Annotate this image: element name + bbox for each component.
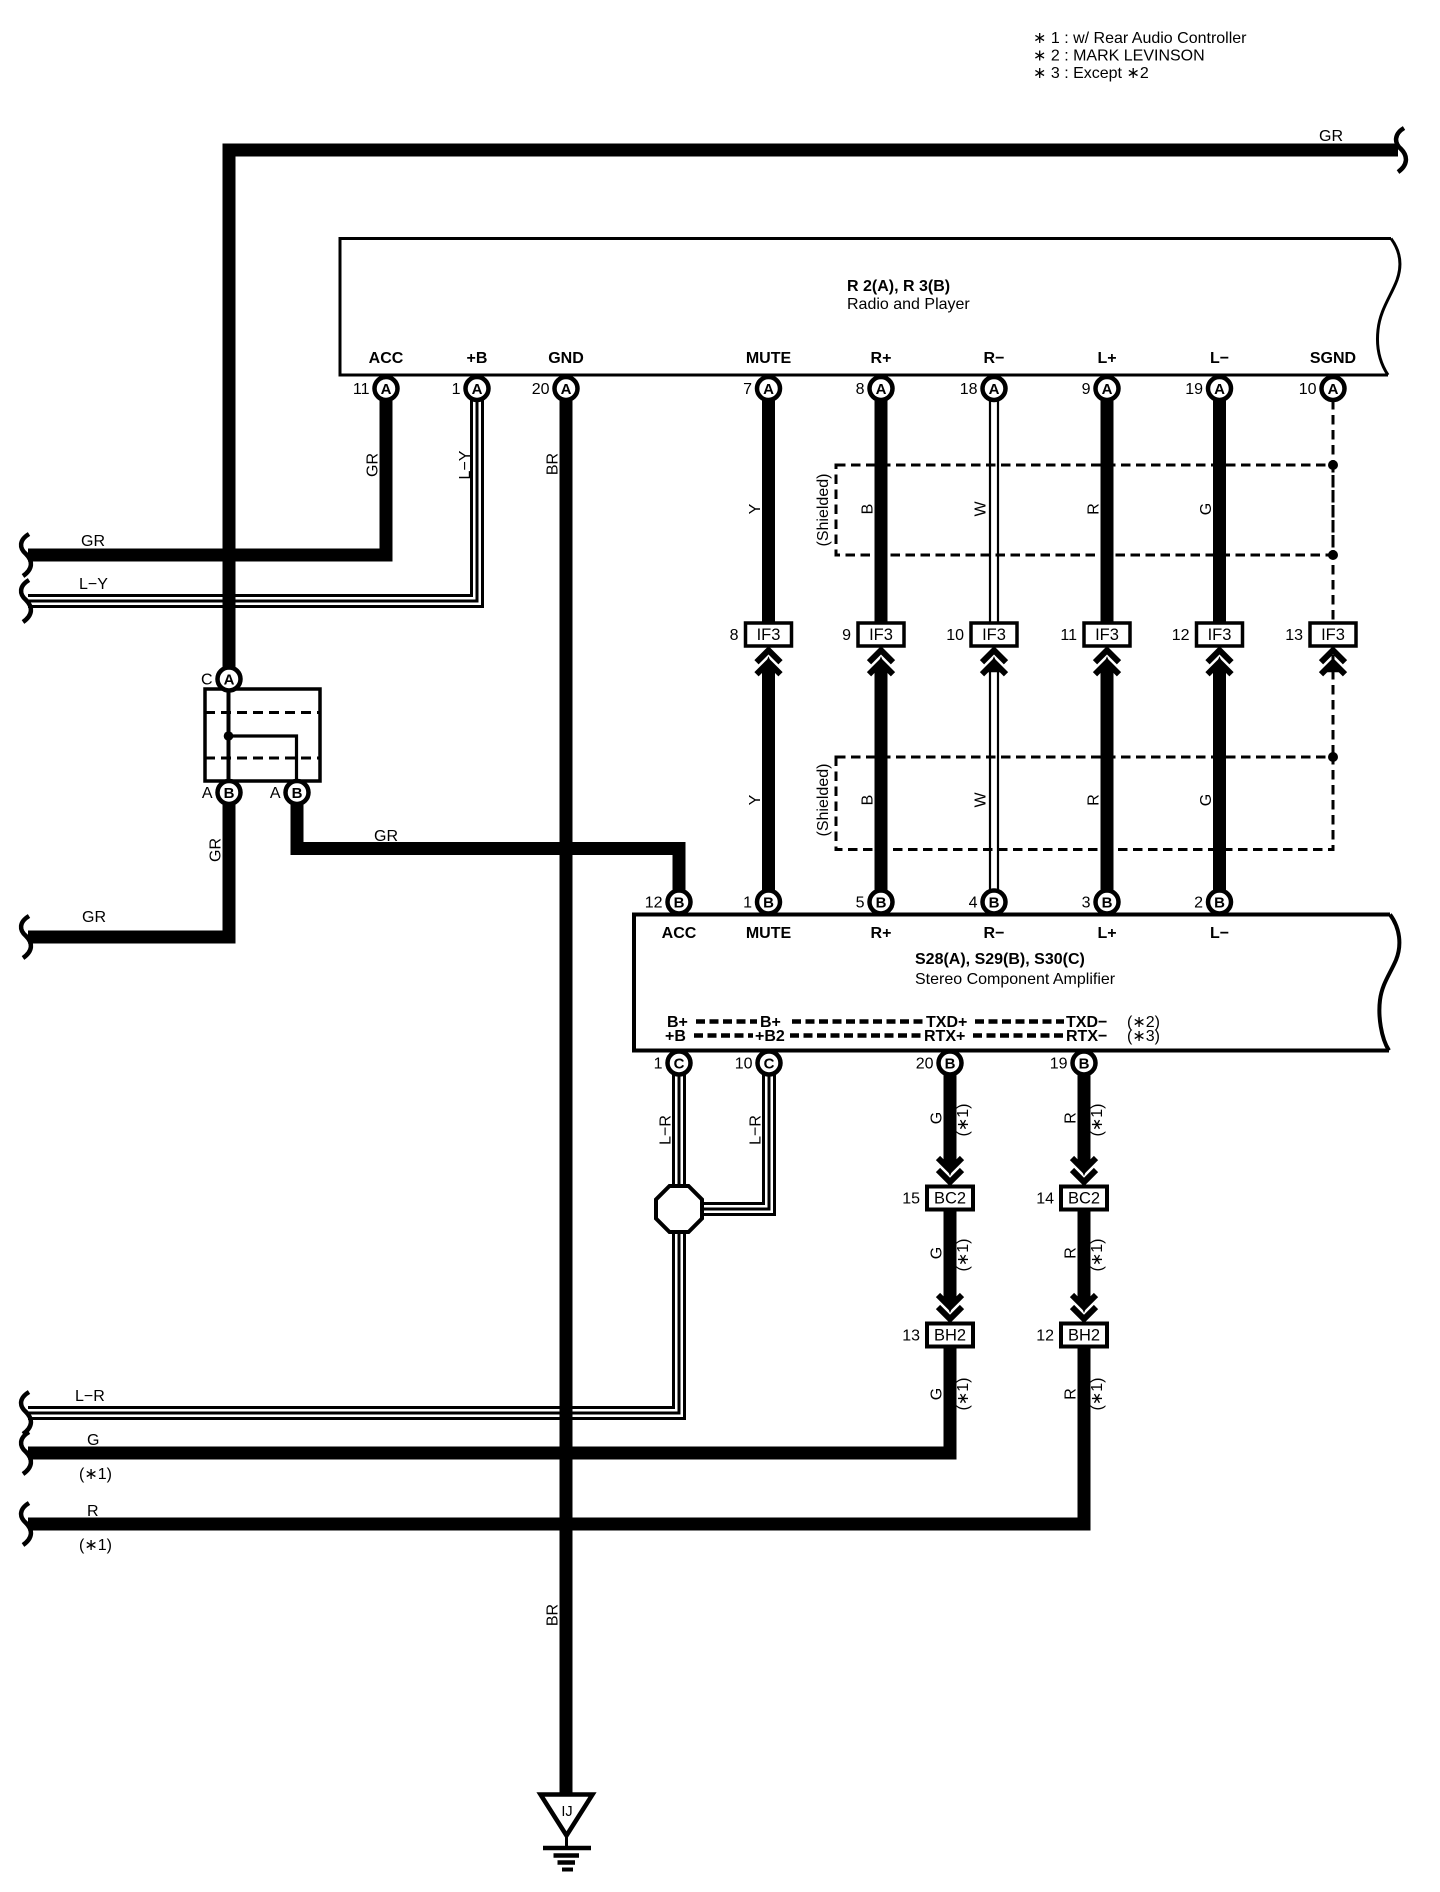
svg-text:(∗1): (∗1) bbox=[79, 1466, 112, 1483]
svg-text:8: 8 bbox=[856, 381, 865, 398]
svg-text:GND: GND bbox=[548, 350, 584, 367]
svg-text:R 2(A), R 3(B): R 2(A), R 3(B) bbox=[847, 278, 950, 295]
svg-text:20: 20 bbox=[532, 381, 550, 398]
svg-text:W: W bbox=[973, 501, 990, 517]
svg-text:A: A bbox=[561, 381, 572, 398]
svg-text:Y: Y bbox=[747, 794, 764, 805]
svg-text:+B2: +B2 bbox=[755, 1028, 785, 1045]
svg-text:L+: L+ bbox=[1097, 350, 1116, 367]
svg-text:MUTE: MUTE bbox=[746, 925, 792, 942]
svg-text:A: A bbox=[472, 381, 483, 398]
svg-text:L−R: L−R bbox=[748, 1115, 765, 1145]
svg-text:GR: GR bbox=[81, 533, 105, 550]
svg-text:(∗1): (∗1) bbox=[1089, 1104, 1106, 1137]
svg-text:R+: R+ bbox=[871, 350, 892, 367]
svg-text:L−R: L−R bbox=[658, 1115, 675, 1145]
svg-text:A: A bbox=[270, 785, 281, 802]
svg-text:G: G bbox=[1198, 503, 1215, 515]
svg-text:Y: Y bbox=[747, 503, 764, 514]
svg-text:ACC: ACC bbox=[662, 925, 697, 942]
svg-text:10: 10 bbox=[735, 1056, 753, 1073]
svg-text:19: 19 bbox=[1185, 381, 1203, 398]
svg-text:3: 3 bbox=[1082, 895, 1091, 912]
svg-text:A: A bbox=[1102, 381, 1113, 398]
svg-text:1: 1 bbox=[452, 381, 461, 398]
svg-text:13: 13 bbox=[1285, 627, 1303, 644]
svg-text:B: B bbox=[674, 895, 685, 912]
svg-text:C: C bbox=[674, 1056, 685, 1073]
svg-text:IF3: IF3 bbox=[1321, 626, 1345, 644]
svg-text:A: A bbox=[202, 785, 213, 802]
svg-text:GR: GR bbox=[1319, 128, 1343, 145]
svg-text:+B: +B bbox=[665, 1028, 686, 1045]
svg-text:W: W bbox=[973, 792, 990, 808]
svg-text:A: A bbox=[381, 381, 392, 398]
svg-text:A: A bbox=[876, 381, 887, 398]
svg-text:10: 10 bbox=[1299, 381, 1317, 398]
svg-text:1: 1 bbox=[743, 895, 752, 912]
svg-text:(Shielded): (Shielded) bbox=[815, 764, 832, 837]
svg-text:A: A bbox=[763, 381, 774, 398]
svg-text:G: G bbox=[929, 1388, 946, 1400]
svg-text:B: B bbox=[1079, 1056, 1090, 1073]
svg-text:SGND: SGND bbox=[1310, 350, 1356, 367]
svg-text:15: 15 bbox=[902, 1191, 920, 1208]
svg-text:C: C bbox=[201, 672, 213, 689]
svg-text:L−Y: L−Y bbox=[457, 450, 474, 479]
svg-text:BC2: BC2 bbox=[934, 1190, 966, 1208]
svg-text:R: R bbox=[1086, 503, 1103, 515]
svg-text:R+: R+ bbox=[871, 925, 892, 942]
svg-text:+B: +B bbox=[467, 350, 488, 367]
svg-text:RTX−: RTX− bbox=[1066, 1028, 1107, 1045]
svg-text:S28(A), S29(B), S30(C): S28(A), S29(B), S30(C) bbox=[915, 951, 1085, 968]
svg-text:∗ 2 : MARK LEVINSON: ∗ 2 : MARK LEVINSON bbox=[1033, 48, 1205, 65]
svg-text:BC2: BC2 bbox=[1068, 1190, 1100, 1208]
svg-text:B: B bbox=[763, 895, 774, 912]
svg-text:A: A bbox=[1328, 381, 1339, 398]
svg-text:GR: GR bbox=[365, 453, 382, 477]
svg-text:RTX+: RTX+ bbox=[924, 1028, 965, 1045]
svg-text:∗ 3 : Except ∗2: ∗ 3 : Except ∗2 bbox=[1033, 65, 1149, 82]
svg-text:GR: GR bbox=[208, 838, 225, 862]
svg-text:GR: GR bbox=[374, 828, 398, 845]
svg-text:B: B bbox=[292, 785, 303, 802]
svg-text:7: 7 bbox=[743, 381, 752, 398]
svg-text:A: A bbox=[1214, 381, 1225, 398]
svg-text:(∗3): (∗3) bbox=[1127, 1028, 1160, 1045]
svg-text:14: 14 bbox=[1036, 1191, 1054, 1208]
svg-text:L−R: L−R bbox=[75, 1388, 105, 1405]
svg-text:18: 18 bbox=[960, 381, 978, 398]
svg-text:G: G bbox=[87, 1432, 99, 1449]
svg-text:(∗1): (∗1) bbox=[955, 1239, 972, 1272]
svg-text:12: 12 bbox=[1172, 627, 1190, 644]
svg-text:BH2: BH2 bbox=[1068, 1327, 1100, 1345]
svg-text:19: 19 bbox=[1050, 1056, 1068, 1073]
svg-text:L−: L− bbox=[1210, 350, 1229, 367]
svg-text:5: 5 bbox=[856, 895, 865, 912]
svg-text:Stereo Component Amplifier: Stereo Component Amplifier bbox=[915, 971, 1116, 988]
svg-text:IF3: IF3 bbox=[1095, 626, 1119, 644]
svg-text:G: G bbox=[929, 1112, 946, 1124]
svg-text:(∗1): (∗1) bbox=[955, 1104, 972, 1137]
svg-text:8: 8 bbox=[730, 627, 739, 644]
svg-text:L−: L− bbox=[1210, 925, 1229, 942]
svg-text:13: 13 bbox=[902, 1328, 920, 1345]
svg-text:R: R bbox=[1086, 794, 1103, 806]
svg-text:R−: R− bbox=[984, 925, 1005, 942]
svg-text:12: 12 bbox=[1036, 1328, 1054, 1345]
svg-text:BR: BR bbox=[545, 1604, 562, 1626]
svg-text:MUTE: MUTE bbox=[746, 350, 792, 367]
svg-text:BH2: BH2 bbox=[934, 1327, 966, 1345]
svg-text:A: A bbox=[224, 672, 235, 689]
svg-text:IF3: IF3 bbox=[757, 626, 781, 644]
svg-text:B: B bbox=[1102, 895, 1113, 912]
svg-text:11: 11 bbox=[353, 381, 370, 398]
svg-text:(∗1): (∗1) bbox=[1089, 1378, 1106, 1411]
svg-text:B: B bbox=[224, 785, 235, 802]
svg-text:11: 11 bbox=[1060, 627, 1077, 644]
svg-text:B: B bbox=[876, 895, 887, 912]
svg-text:B: B bbox=[860, 504, 877, 515]
svg-text:(∗1): (∗1) bbox=[955, 1378, 972, 1411]
svg-text:1: 1 bbox=[654, 1056, 663, 1073]
svg-text:BR: BR bbox=[545, 453, 562, 475]
svg-text:B: B bbox=[860, 795, 877, 806]
svg-text:(Shielded): (Shielded) bbox=[815, 474, 832, 547]
svg-text:GR: GR bbox=[82, 909, 106, 926]
svg-text:R−: R− bbox=[984, 350, 1005, 367]
svg-text:(∗1): (∗1) bbox=[1089, 1239, 1106, 1272]
svg-text:R: R bbox=[1063, 1247, 1080, 1259]
svg-text:R: R bbox=[1063, 1388, 1080, 1400]
svg-text:∗ 1 : w/ Rear Audio Controller: ∗ 1 : w/ Rear Audio Controller bbox=[1033, 30, 1247, 47]
svg-text:2: 2 bbox=[1194, 895, 1203, 912]
svg-text:Radio and Player: Radio and Player bbox=[847, 296, 970, 313]
svg-text:9: 9 bbox=[1082, 381, 1091, 398]
svg-text:9: 9 bbox=[842, 627, 851, 644]
svg-text:L+: L+ bbox=[1097, 925, 1116, 942]
svg-text:IF3: IF3 bbox=[869, 626, 893, 644]
svg-text:20: 20 bbox=[916, 1056, 934, 1073]
svg-text:A: A bbox=[989, 381, 1000, 398]
svg-text:IF3: IF3 bbox=[1208, 626, 1232, 644]
svg-text:L−Y: L−Y bbox=[79, 576, 108, 593]
svg-text:ACC: ACC bbox=[369, 350, 404, 367]
svg-text:4: 4 bbox=[969, 895, 978, 912]
svg-text:B: B bbox=[1214, 895, 1225, 912]
svg-text:IF3: IF3 bbox=[982, 626, 1006, 644]
svg-text:B: B bbox=[989, 895, 1000, 912]
svg-text:C: C bbox=[764, 1056, 775, 1073]
svg-text:B: B bbox=[945, 1056, 956, 1073]
svg-text:G: G bbox=[1198, 794, 1215, 806]
svg-text:IJ: IJ bbox=[561, 1804, 572, 1820]
svg-text:10: 10 bbox=[946, 627, 964, 644]
svg-text:12: 12 bbox=[645, 895, 663, 912]
svg-text:G: G bbox=[929, 1247, 946, 1259]
svg-text:R: R bbox=[1063, 1112, 1080, 1124]
svg-text:(∗1): (∗1) bbox=[79, 1537, 112, 1554]
svg-text:R: R bbox=[87, 1503, 99, 1520]
